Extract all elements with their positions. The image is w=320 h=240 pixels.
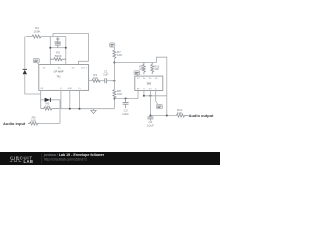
svg-text:741: 741 <box>56 74 61 78</box>
svg-text:GND: GND <box>67 88 72 90</box>
svg-text:10K: 10K <box>45 105 50 109</box>
wire loop right rail <box>59 100 61 124</box>
RC group right rail <box>65 37 67 65</box>
svg-text:56pF: 56pF <box>54 40 61 44</box>
svg-text:G8: G8 <box>155 78 158 80</box>
svg-text:10K: 10K <box>31 119 36 123</box>
wire input to rail <box>39 123 60 125</box>
svg-text:10K: 10K <box>177 111 182 115</box>
flag V+ <box>110 43 115 47</box>
svg-text:10K: 10K <box>139 67 144 71</box>
U1 bottom pins to bus <box>61 90 80 108</box>
wire node down <box>113 81 115 90</box>
resistor R3 <box>92 79 100 82</box>
circuitlab logo <box>10 156 34 164</box>
amplifier U2 box <box>135 76 163 90</box>
capacitor C1 plates <box>105 78 107 83</box>
wire flag down <box>113 47 115 50</box>
tag icon T2 <box>134 71 140 76</box>
tag icon T3 <box>156 101 163 109</box>
wire U1 pin FB down <box>40 90 42 108</box>
svg-text:http://circuitlab.com/c62nd72: http://circuitlab.com/c62nd72 <box>44 157 87 161</box>
RC group left rail <box>49 37 51 65</box>
wire C1 to node <box>107 80 115 82</box>
resistor R10 vertical (U2 bias) <box>151 63 154 75</box>
svg-text:10uF: 10uF <box>147 123 154 127</box>
tag icon T1 <box>33 58 39 64</box>
wire U2 out down <box>149 91 151 116</box>
RC group mid wire <box>50 47 66 49</box>
svg-text:10uF: 10uF <box>122 112 129 116</box>
wire rail up over <box>156 57 166 115</box>
svg-text:IN-: IN- <box>143 78 146 80</box>
resistor R8 vertical <box>113 90 116 98</box>
svg-text:10K: 10K <box>154 67 159 71</box>
wire U1 output right <box>89 80 92 82</box>
wire node to U2 pin1 <box>114 91 138 99</box>
resistor R5 input <box>28 122 39 125</box>
resistor R6 branch <box>41 107 60 110</box>
node dot <box>143 95 145 97</box>
svg-text:IN-: IN- <box>43 67 46 69</box>
svg-text:OUT 1: OUT 1 <box>81 67 88 69</box>
capacitor C2 plates <box>55 43 61 45</box>
resistor R9 vertical (U2 bias) <box>143 63 146 75</box>
resistor R7 vertical <box>113 50 116 58</box>
capacitor C4 <box>149 116 151 121</box>
svg-text:560K: 560K <box>55 54 62 58</box>
wire R8 to bus corner <box>113 98 115 109</box>
svg-text:jordana / Lab 19 - Envelope fo: jordana / Lab 19 - Envelope follower <box>43 153 105 157</box>
wire to C1 <box>99 80 105 82</box>
wire below diode <box>25 74 41 94</box>
svg-text:LAB: LAB <box>24 159 34 164</box>
node dot <box>166 115 168 117</box>
ground bus <box>61 108 115 110</box>
ground symbol <box>91 109 96 114</box>
bottom rail <box>144 95 167 97</box>
node dot C3 <box>125 98 127 100</box>
svg-text:1uF: 1uF <box>103 73 108 77</box>
node dot <box>113 80 115 82</box>
svg-text:10K: 10K <box>93 76 98 80</box>
svg-text:10K: 10K <box>117 92 122 96</box>
node dot <box>149 115 151 117</box>
wire U2 pin2 to rail <box>143 91 145 96</box>
diode D2 (pointing right) <box>45 98 51 102</box>
node dot left <box>49 47 51 49</box>
resistor R2 horizontal <box>50 58 66 61</box>
feedback loop top <box>53 34 88 65</box>
wire U2 pin4 stub <box>155 91 157 102</box>
node dot <box>113 98 115 100</box>
resistor R11 output <box>176 114 188 117</box>
svg-text:Audio output: Audio output <box>189 113 215 118</box>
node dot <box>149 95 151 97</box>
svg-text:OP AMP: OP AMP <box>54 69 64 73</box>
svg-text:Audio input: Audio input <box>3 121 26 126</box>
capacitor C2 lead <box>57 37 59 48</box>
resistor R4 (top input) <box>32 35 41 38</box>
output wire <box>150 115 176 117</box>
svg-text:100K: 100K <box>33 29 40 33</box>
footer bar <box>0 152 220 165</box>
wire left rail down <box>24 37 26 69</box>
node dot <box>69 108 71 110</box>
node dot right <box>65 47 67 49</box>
svg-text:NC: NC <box>72 67 76 69</box>
diode D1 (pointing up) <box>23 70 27 75</box>
diode D2 branch wire <box>41 99 60 101</box>
footer divider <box>41 154 43 164</box>
wire top node <box>41 36 66 38</box>
node dot <box>113 62 115 64</box>
wire to U2 rail <box>114 62 156 64</box>
svg-text:V-: V- <box>60 88 62 90</box>
wire R7 down <box>113 58 115 80</box>
wire input top <box>26 36 32 38</box>
node dot <box>79 108 81 110</box>
op-amp U1 box <box>39 65 89 91</box>
capacitor C3 <box>125 99 127 109</box>
svg-text:G1: G1 <box>137 78 140 80</box>
svg-text:386: 386 <box>146 81 151 85</box>
svg-text:10K: 10K <box>117 53 122 57</box>
